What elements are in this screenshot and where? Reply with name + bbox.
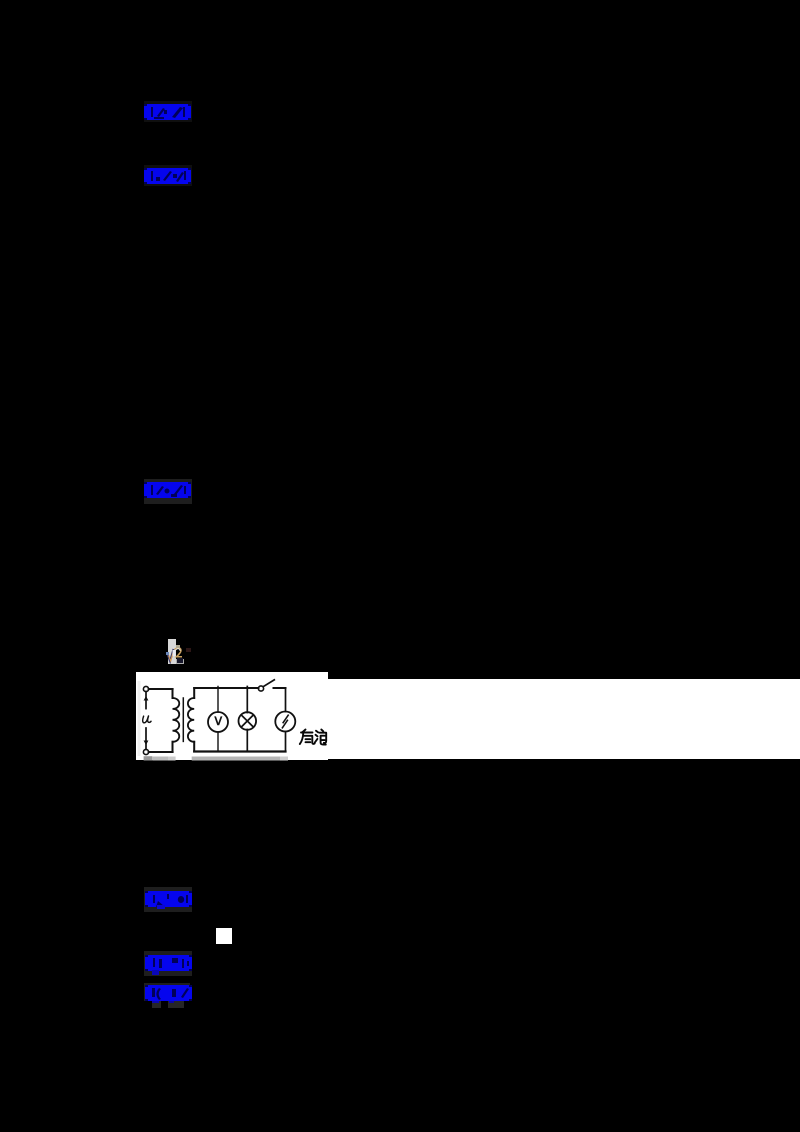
answer link halo A <box>144 101 192 122</box>
neon electrodes <box>282 715 288 728</box>
switch lever <box>263 679 274 686</box>
descender stub 2 <box>168 1000 184 1008</box>
answer link label E 【考点】 <box>145 955 192 971</box>
voltmeter branch wire <box>217 686 219 751</box>
secondary bottom wire <box>194 750 285 752</box>
blue descender under D <box>157 905 165 909</box>
neon bulb circle <box>275 711 295 731</box>
V label <box>214 716 222 725</box>
lamp cross <box>241 715 253 727</box>
scanned circuit figure white background <box>136 672 328 760</box>
circuit schematic drawing <box>136 672 328 761</box>
neon label 氖泡 pseudo glyphs <box>300 729 326 744</box>
neon branch wire <box>285 688 287 752</box>
answer link label A 【答案】 <box>144 104 191 120</box>
white content band to right edge <box>328 679 800 759</box>
u label <box>143 716 151 723</box>
switch terminal <box>258 685 263 690</box>
voltmeter V circle <box>208 712 228 732</box>
answer link label B 【解析】 <box>144 168 191 184</box>
wire source top lead <box>145 691 147 708</box>
answer link halo E <box>144 951 192 976</box>
secondary top wire <box>194 687 258 689</box>
arrow down on source lead <box>144 740 149 745</box>
transformer core <box>182 698 184 741</box>
answer link label D 【答案】 <box>145 891 192 907</box>
wire switch to corner <box>274 687 286 689</box>
blue descender under E <box>152 970 159 975</box>
wire primary top <box>149 688 173 690</box>
answer link halo B <box>144 165 192 186</box>
answer link label F 【分析】 <box>145 985 192 1001</box>
blue descender tip 1 <box>152 1000 159 1003</box>
source top terminal <box>143 686 148 691</box>
answer link halo F <box>144 983 190 1001</box>
wire source bottom lead <box>145 728 147 749</box>
blue descender tip 2 <box>169 1000 174 1003</box>
inline small white image <box>216 928 232 944</box>
lamp branch wire <box>246 686 248 751</box>
scan shadow strips <box>138 681 289 761</box>
answer link halo D <box>144 887 192 912</box>
transformer primary coil L1 <box>172 689 174 752</box>
descender stub 1 <box>152 1000 161 1008</box>
answer link label C 【详解】 <box>144 482 191 498</box>
source bottom terminal <box>143 749 148 754</box>
answer link halo C <box>144 479 192 504</box>
formula icon (root 2 equation fragment) <box>164 637 194 665</box>
lamp circle <box>239 712 257 730</box>
arrow up on source lead <box>144 696 149 701</box>
wire primary bottom <box>149 751 173 753</box>
transformer secondary coil L2 <box>193 688 195 752</box>
